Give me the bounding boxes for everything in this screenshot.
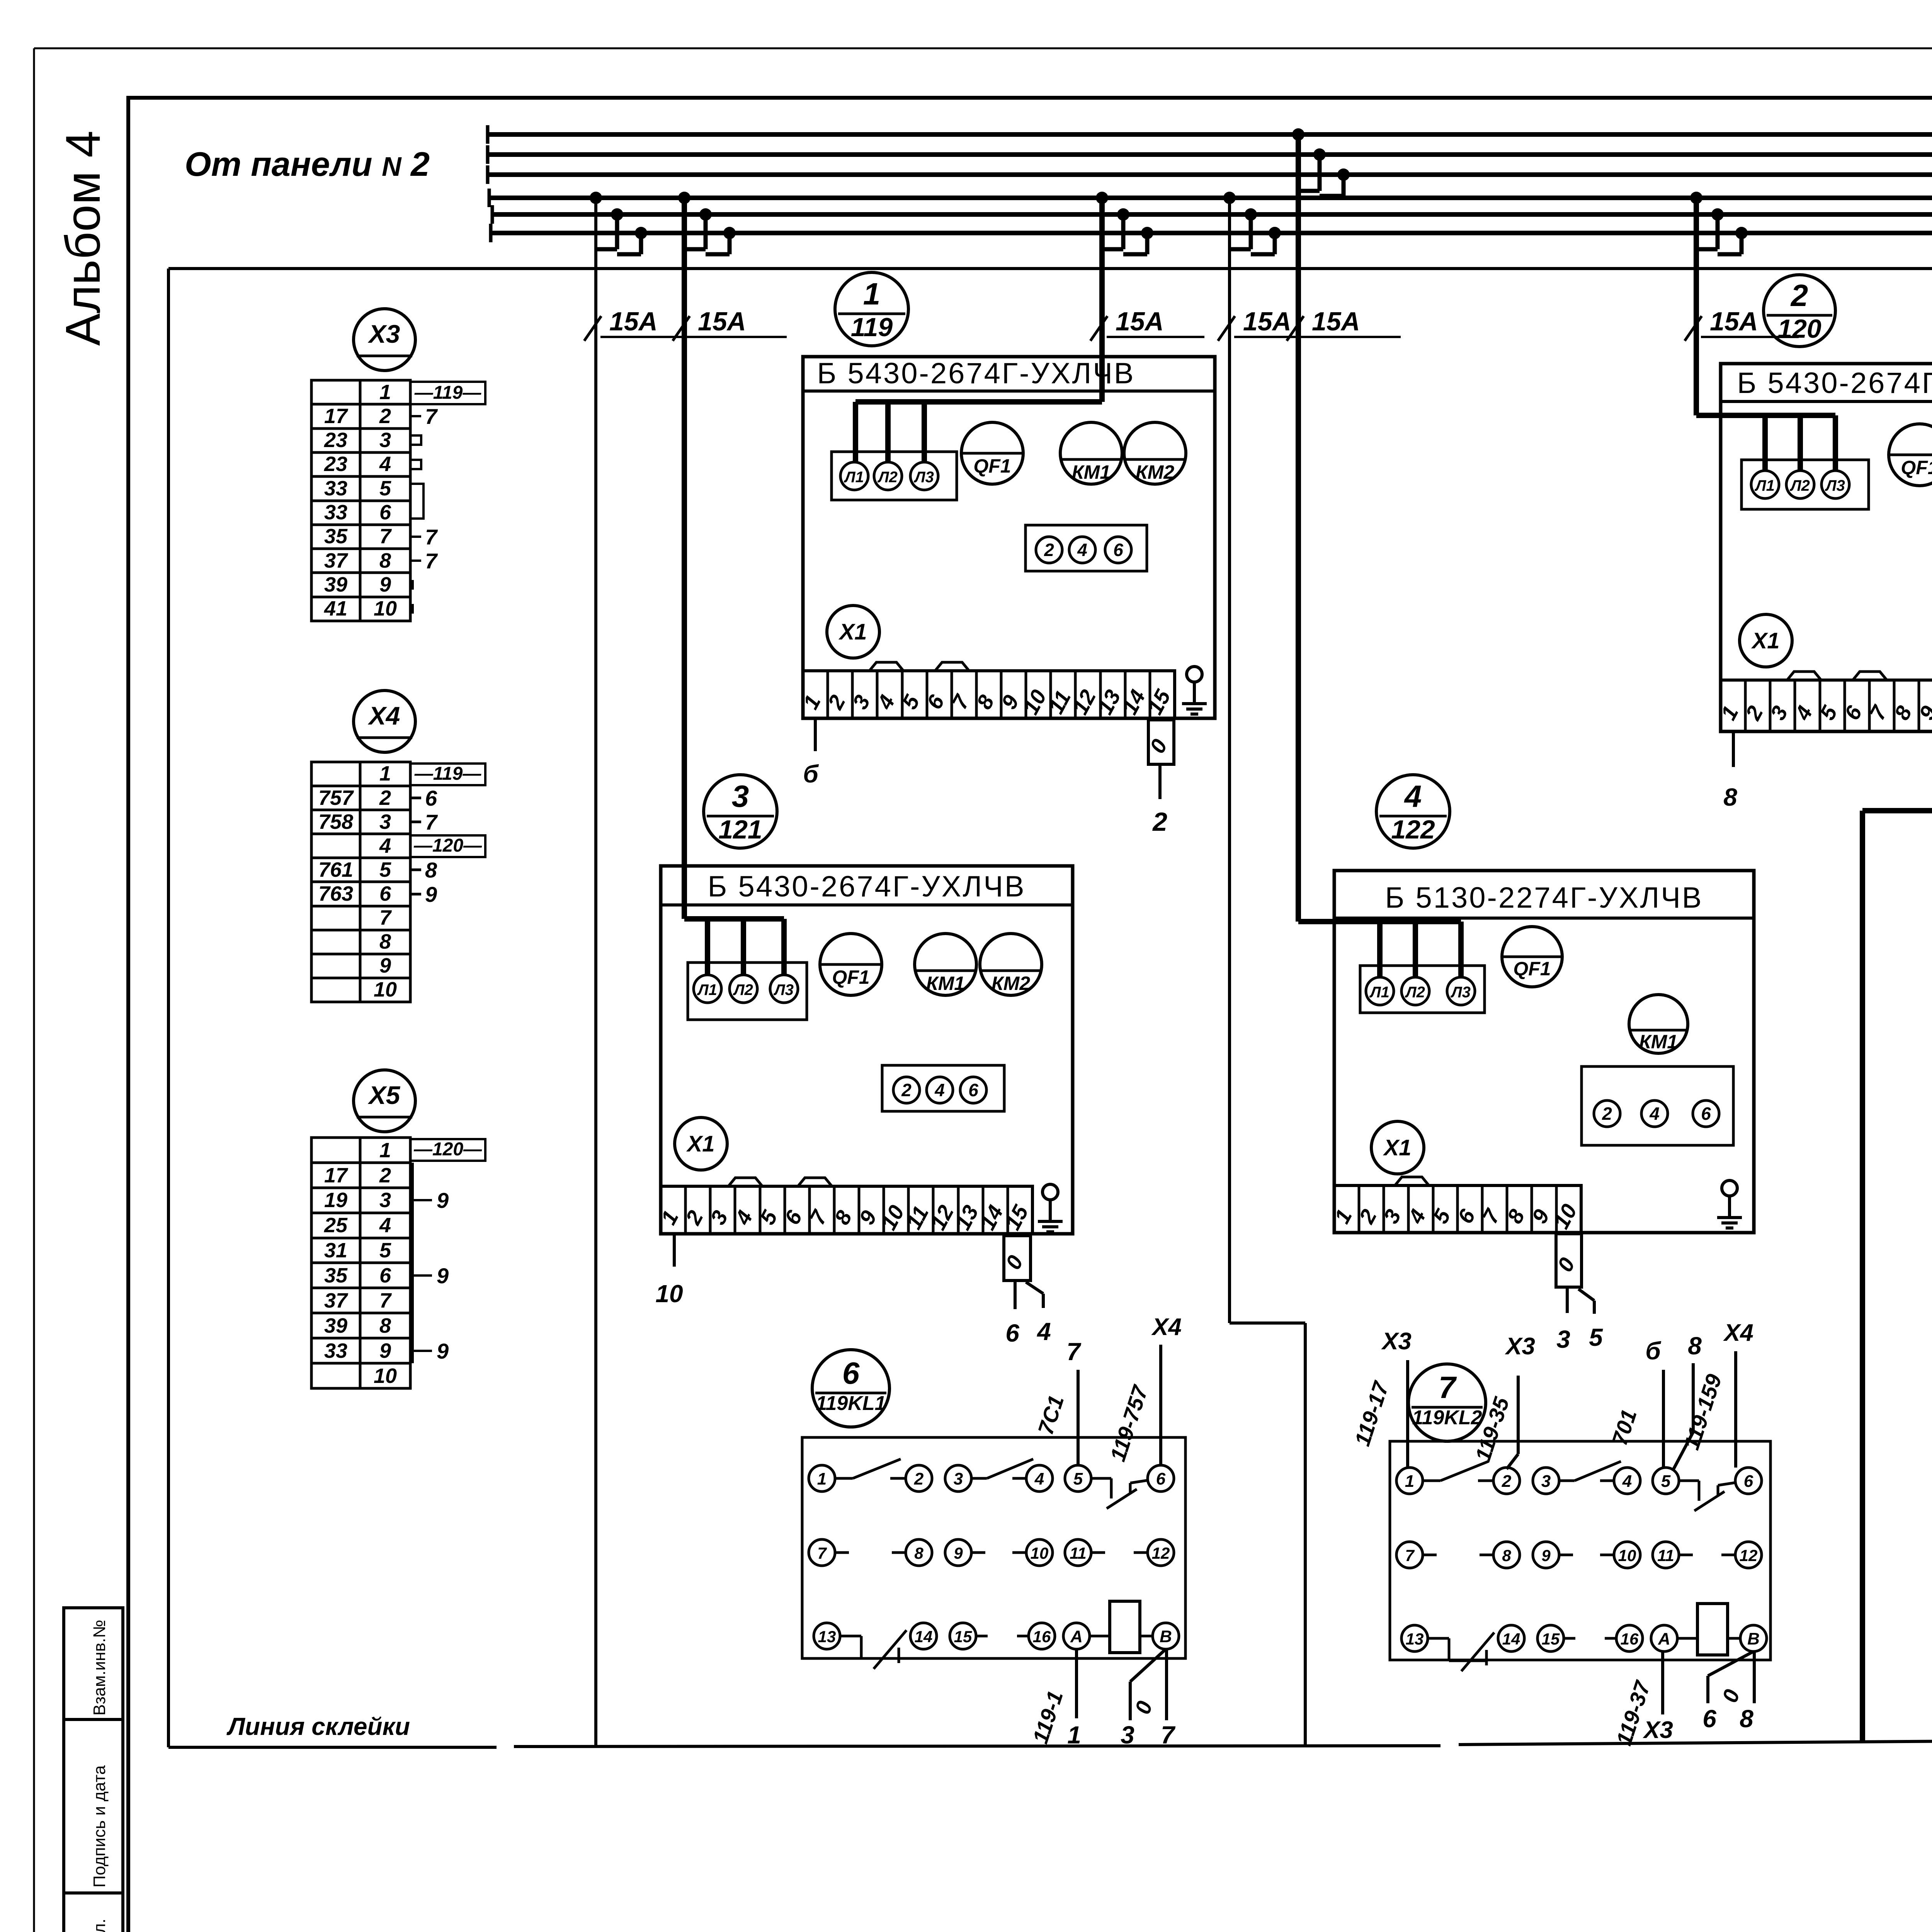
aux contact 6 of 119 [1105,537,1131,563]
relay 119KL1 pin 12 [1148,1539,1174,1566]
tap junction W6 main [1690,192,1702,204]
terminal Л3 of 122 [1447,977,1475,1005]
starter block 122 input terminals box [1360,966,1485,1013]
circuit balloon 3/121 [704,775,777,848]
circuit balloon 6/119KL1 [812,1350,889,1427]
aux contact 6 of 121 [960,1077,986,1103]
aux contact 2 of 119 [1036,537,1062,563]
svg-text:3: 3 [379,810,391,833]
relay 119KL2 stub pin 16 [1605,1637,1616,1640]
tap junction W3 main [1096,192,1108,204]
terminal Л2 of 120 [1786,471,1814,498]
svg-text:8: 8 [914,1544,923,1562]
relay 119KL1 stub pin 15 [976,1635,988,1638]
svg-text:2: 2 [914,1469,924,1488]
svg-text:10: 10 [374,978,397,1001]
ground symbol of 119 [1187,667,1202,682]
svg-text:10: 10 [374,597,397,620]
wire W6 hook phase3 [1735,227,1748,239]
svg-text:14: 14 [915,1628,933,1646]
svg-text:10: 10 [374,1364,397,1388]
circuit breaker QF1 of 121 [820,934,882,995]
wire into relay 119KL1 pin 6 from X4 [1159,1345,1162,1465]
circuit breaker QF1 of 119 [961,422,1023,484]
starter block 120 outline [1721,364,1932,731]
svg-text:Б 5430-2674Г-УХЛЧВ: Б 5430-2674Г-УХЛЧВ [1737,367,1932,400]
inner frame left [167,269,170,1747]
relay 119KL2 contact 5-6 [1679,1480,1699,1482]
svg-text:QF1: QF1 [1513,958,1551,980]
terminal strip of 121 [661,1186,1032,1234]
svg-text:15А: 15А [698,307,746,336]
bent wire into relay 119KL2 pin 5 [1692,1363,1695,1432]
svg-text:1: 1 [379,762,391,785]
terminal table X4 [311,762,410,1002]
wire into relay 119KL2 pin 5 [1662,1370,1665,1468]
aux contact 4 of 119 [1069,537,1095,563]
svg-text:б: б [1645,1337,1662,1365]
svg-text:Л3: Л3 [1450,984,1471,1001]
svg-text:6: 6 [1702,1705,1716,1733]
svg-text:QF1: QF1 [832,966,869,988]
svg-text:6: 6 [842,1356,860,1390]
relay 119KL2 pin 3 [1533,1468,1559,1494]
svg-text:7: 7 [425,549,438,573]
svg-text:15А: 15А [1116,307,1164,336]
svg-text:2: 2 [379,405,391,428]
svg-text:8: 8 [379,549,391,572]
svg-text:Линия склейки: Линия склейки [226,1713,410,1740]
relay 119KL1 pin 11 [1065,1539,1091,1566]
svg-text:4: 4 [379,452,391,476]
relay 119KL1 pin 9 [945,1539,971,1566]
svg-text:5: 5 [1589,1323,1603,1351]
wire into relay 119KL1 pin 5 [1077,1370,1080,1465]
wire into relay 119KL2 pin 6 from X4 [1734,1351,1737,1468]
relay 119KL2 pin 5 [1653,1468,1679,1494]
svg-text:8: 8 [425,858,437,882]
svg-text:Б 5430-2674Г-УХЛЧВ: Б 5430-2674Г-УХЛЧВ [817,357,1135,390]
svg-text:Л1: Л1 [697,981,717,998]
tap junction W2 main [678,192,690,204]
svg-text:2: 2 [379,786,391,810]
relay 119KL1 pin 16 [1029,1623,1055,1649]
relay 119KL2 pin B [1740,1625,1767,1651]
table X5 cable tag 120 [410,1139,485,1161]
svg-text:Л3: Л3 [1825,477,1845,494]
svg-text:—119—: —119— [414,764,482,784]
svg-text:6: 6 [1701,1104,1711,1124]
svg-text:3: 3 [1556,1325,1570,1353]
svg-text:Х3: Х3 [1643,1717,1673,1743]
table X5 wire tags 9 [413,1199,432,1201]
svg-text:1: 1 [379,381,391,404]
relay 119KL1 coil [1110,1601,1140,1653]
svg-text:9: 9 [954,1544,963,1562]
contactor КМ2 of 121 [980,934,1042,995]
svg-text:X1: X1 [686,1131,715,1156]
wire W3 hook phase3 [1141,227,1153,239]
jumper bump on strip of 120 [1853,672,1887,680]
svg-text:7: 7 [1066,1338,1082,1366]
svg-text:8: 8 [379,930,391,953]
aux contact 4 of 122 [1641,1100,1668,1127]
svg-text:2: 2 [1044,540,1054,560]
svg-text:Л2: Л2 [1789,477,1810,494]
svg-text:5: 5 [1661,1472,1671,1491]
sheet edge lines [34,48,1932,49]
relay 119KL2 pin 8 [1493,1542,1520,1568]
aux contact 4 of 121 [927,1077,953,1103]
relay 119KL2 coil leads [1677,1637,1697,1640]
svg-text:X3: X3 [367,320,400,348]
svg-text:В: В [1160,1627,1172,1646]
svg-text:6: 6 [1005,1319,1019,1347]
relay 119KL1 pin 10 [1026,1539,1053,1566]
svg-text:758: 758 [318,810,353,833]
bus line L5 [492,212,1932,217]
svg-text:2: 2 [1602,1104,1612,1124]
svg-text:757: 757 [318,786,354,810]
svg-text:763: 763 [318,882,353,905]
svg-text:6: 6 [1113,540,1123,560]
connector X1 of 120 [1740,614,1792,667]
svg-text:25: 25 [324,1214,348,1237]
terminal Л1 of 121 [694,975,721,1003]
terminal Л3 of 121 [770,975,798,1003]
svg-text:9: 9 [437,1339,449,1363]
relay block 119KL1 outline [802,1437,1185,1658]
svg-text:X4: X4 [1151,1314,1182,1340]
svg-text:—120—: —120— [413,835,482,856]
svg-text:Л1: Л1 [1369,984,1389,1001]
relay 119KL2 stub pin 15 [1564,1637,1575,1640]
svg-text:3: 3 [1541,1472,1551,1491]
relay 119KL2 coil [1697,1604,1728,1655]
contactor КМ2 of 119 [1124,422,1186,484]
fuse F3 15A [1090,316,1107,341]
relay 119KL2 pin 10 [1614,1542,1640,1568]
svg-text:X1: X1 [1751,628,1780,653]
svg-text:13: 13 [818,1628,836,1646]
wire W1 hook phase3 [635,227,647,239]
svg-text:3: 3 [379,429,391,452]
relay 119KL1 pin 15 [950,1623,976,1649]
connector X1 of 119 [827,605,879,658]
svg-text:7: 7 [425,404,438,429]
circuit balloon 7/119KL2 [1408,1364,1486,1441]
aux contact box of 122 [1582,1066,1733,1145]
aux contact 2 of 121 [893,1077,920,1103]
svg-text:X1: X1 [1383,1135,1412,1160]
svg-text:4: 4 [1404,779,1422,813]
relay 119KL1 contact 13-14 [840,1635,861,1638]
svg-text:9: 9 [379,573,391,596]
svg-text:X3: X3 [1505,1333,1535,1360]
relay 119KL1 contact 1-2 [835,1477,853,1480]
relay 119KL1 pin 6 [1148,1465,1174,1492]
starter block 122 outline [1334,871,1754,1233]
starter block 121 header separator [661,903,1073,906]
svg-text:—119—: —119— [414,383,482,403]
table X4 cable tag 119 [410,764,485,785]
svg-text:33: 33 [324,501,347,524]
jumper bump on strip of 121 [728,1178,762,1186]
starter block 119 header separator [803,389,1215,393]
svg-text:17: 17 [324,1164,349,1187]
svg-text:122: 122 [1391,815,1435,844]
svg-text:4: 4 [1077,540,1087,560]
svg-text:9: 9 [437,1188,449,1213]
ground symbol of 121 [1043,1184,1058,1200]
svg-text:Л3: Л3 [773,981,794,998]
left stamp boxes [64,1608,123,1719]
svg-text:23: 23 [324,452,347,476]
svg-text:2: 2 [901,1080,912,1100]
svg-text:120: 120 [1777,314,1821,344]
svg-text:6: 6 [379,1264,391,1287]
starter block 120 header separator [1721,400,1932,403]
svg-text:6: 6 [379,501,391,524]
bus line L2 [488,152,1932,157]
svg-text:6: 6 [1156,1469,1166,1488]
glue line horizontal bottom [168,1746,497,1749]
svg-text:33: 33 [324,477,347,500]
svg-text:4: 4 [1036,1318,1051,1345]
svg-text:QF1: QF1 [973,455,1011,477]
svg-text:б: б [803,760,819,788]
svg-text:2: 2 [379,1164,391,1187]
wire W2 phase stubs into block 121 [705,919,710,975]
svg-text:33: 33 [324,1339,347,1362]
svg-text:12: 12 [1152,1544,1170,1562]
circuit breaker QF1 of 122 [1502,927,1562,987]
svg-text:31: 31 [324,1239,347,1262]
relay 119KL2 pin 7 [1396,1542,1423,1568]
svg-text:6: 6 [1744,1472,1753,1491]
aux contact 6 of 122 [1693,1100,1719,1127]
terminal Л1 of 120 [1751,471,1779,498]
relay 119KL2 pin 2 [1493,1468,1520,1494]
wire W2 hook phase3 [723,227,736,239]
svg-text:Л1: Л1 [1754,477,1775,494]
svg-text:КМ2: КМ2 [1136,461,1174,483]
wires from terminal 0 of block 122 [1566,1287,1569,1313]
relay 119KL2 pin 6 [1735,1468,1762,1494]
svg-text:4: 4 [1649,1104,1660,1124]
relay 119KL2 pin 14 [1498,1625,1524,1651]
svg-text:1: 1 [379,1139,391,1162]
table X4 wire tags [410,797,421,799]
tap junction W4 main [1223,192,1236,204]
svg-text:7: 7 [379,906,392,929]
relay 119KL2 pin 1 [1396,1468,1423,1494]
wire W1 hook phase2 [611,208,623,221]
terminal Л2 of 122 [1401,977,1429,1005]
svg-text:19: 19 [324,1189,347,1212]
starter block 122 header separator [1334,917,1754,920]
svg-text:761: 761 [318,858,353,881]
relay 119KL2 contact 3-4 [1559,1480,1575,1482]
svg-text:А: А [1070,1627,1083,1646]
svg-text:16: 16 [1621,1630,1639,1648]
svg-text:119: 119 [851,313,893,342]
terminal table X5 [311,1138,410,1388]
aux contact box of 121 [882,1065,1004,1111]
svg-text:6: 6 [968,1080,978,1100]
terminal table X3 [311,380,410,621]
jumper bump on strip of 119 [869,662,903,671]
relay 119KL2 pin 11 [1653,1542,1679,1568]
relay 119KL1 pin 5 [1065,1465,1091,1492]
svg-text:4: 4 [379,1214,391,1237]
wires from relay 119KL1 pin B [1130,1649,1166,1682]
starter block 119 outline [803,357,1215,718]
svg-text:15: 15 [1542,1630,1560,1648]
jumper bump on strip of 119 [935,662,969,671]
svg-text:121: 121 [718,815,762,844]
aux contact box of 119 [1026,525,1147,571]
svg-text:1: 1 [817,1469,827,1488]
relay 119KL1 pin B [1153,1623,1179,1649]
table X3 cable tag 119 [410,382,485,404]
svg-text:Л1: Л1 [844,469,864,486]
svg-text:15: 15 [954,1628,972,1646]
svg-text:7: 7 [379,525,392,548]
relay 119KL1 stub pin 16 [1017,1635,1029,1638]
svg-text:7: 7 [425,525,438,549]
tap junction W1 main [590,192,602,204]
svg-text:10: 10 [1031,1544,1049,1562]
connector X1 of 122 [1371,1121,1424,1174]
contactor КМ1 of 122 [1629,995,1688,1053]
svg-text:39: 39 [324,1314,347,1337]
relay 119KL1 pin 13 [814,1623,840,1649]
connector symbol X5 [354,1070,415,1132]
relay 119KL1 pin 14 [910,1623,937,1649]
relay 119KL2 contact 13-14 [1428,1637,1449,1640]
bus line L3 [488,172,1932,177]
svg-text:7: 7 [1161,1721,1176,1749]
svg-text:15А: 15А [609,307,658,336]
svg-text:2: 2 [1502,1472,1512,1491]
svg-text:Инв.№подл.: Инв.№подл. [90,1918,109,1932]
svg-text:1: 1 [863,277,881,311]
svg-text:15А: 15А [1710,307,1758,336]
svg-text:3: 3 [1121,1721,1134,1749]
svg-text:10: 10 [1618,1546,1636,1565]
relay 119KL2 pin 12 [1735,1542,1762,1568]
connector symbol X4 [354,690,415,752]
svg-text:3: 3 [379,1189,391,1212]
svg-text:4: 4 [379,834,391,857]
svg-text:12: 12 [1740,1546,1758,1565]
neutral terminal 0 of 122 [1556,1234,1582,1287]
fuse F6 15A [1685,316,1702,341]
wire from relay 119KL2 pin A [1661,1651,1664,1714]
svg-text:6: 6 [425,786,437,810]
svg-text:8: 8 [1740,1705,1753,1733]
wires from relay 119KL2 pin B [1708,1651,1753,1676]
jumper bump on strip of 120 [1787,672,1821,680]
relay 119KL1 pin stubs row2 [835,1551,849,1554]
bus line L1 [488,132,1932,137]
connector symbol X3 [354,309,415,371]
svg-text:КМ1: КМ1 [926,973,965,994]
bus line L4 [489,196,1932,200]
wire W6 hook phase2 [1711,208,1724,221]
wire W5 phase stubs into block 122 [1377,922,1383,978]
contactor КМ1 of 121 [915,934,976,995]
relay 119KL1 pin 7 [809,1539,835,1566]
inner frame top [168,267,1932,270]
circuit balloon 2/120 [1764,275,1835,347]
svg-text:Л3: Л3 [913,469,934,486]
svg-text:В: В [1747,1629,1760,1648]
svg-text:39: 39 [324,573,347,596]
svg-text:15А: 15А [1312,307,1360,336]
svg-text:Б 5130-2274Г-УХЛЧВ: Б 5130-2274Г-УХЛЧВ [1385,881,1703,914]
relay 119KL2 pin A [1651,1625,1677,1651]
relay 119KL1 pin 8 [906,1539,932,1566]
svg-text:6: 6 [379,882,391,905]
wire into relay 119KL2 pin 2 from X3 [1517,1376,1520,1454]
svg-text:3: 3 [732,779,749,813]
wire from relay 119KL1 pin A [1075,1649,1078,1718]
jumper bump on strip of 122 [1395,1177,1429,1185]
svg-text:9: 9 [379,954,391,977]
wire from terminal 0 of block 119 [1158,764,1162,799]
svg-text:8: 8 [379,1314,391,1337]
fuse F4 15A [1218,316,1235,341]
svg-text:17: 17 [324,405,349,428]
svg-text:7: 7 [425,810,438,834]
svg-text:10: 10 [655,1280,683,1308]
aux contact 2 of 122 [1594,1100,1620,1127]
terminal Л3 of 119 [910,462,938,490]
terminal strip of 122 [1334,1185,1581,1233]
svg-text:5: 5 [379,477,391,500]
wire W5 hook phase3 [1337,168,1350,181]
fuse F1 15A [584,316,601,341]
relay 119KL2 pin 4 [1614,1468,1640,1494]
svg-text:7: 7 [379,1289,392,1312]
svg-text:Л2: Л2 [877,469,898,486]
fuse F2 15A [673,316,690,341]
svg-text:1: 1 [1067,1721,1081,1749]
svg-text:7: 7 [1405,1546,1415,1565]
relay 119KL2 pin 13 [1401,1625,1428,1651]
relay 119KL1 pin A [1063,1623,1090,1649]
wire from terminal 1 of block 119 [814,718,817,751]
relay 119KL1 contact 5-6 [1091,1477,1111,1480]
neutral terminal 0 of 119 [1148,720,1174,764]
wire W4 hook phase2 [1245,208,1257,221]
svg-text:37: 37 [324,1289,349,1312]
wire W2 hook phase2 [699,208,712,221]
circuit breaker QF1 of 120 [1889,424,1932,486]
svg-text:Л2: Л2 [733,981,753,998]
svg-text:9: 9 [379,1339,391,1362]
svg-text:4: 4 [1034,1469,1044,1488]
svg-text:119KL2: 119KL2 [1412,1406,1482,1429]
starter block 121 input terminals box [688,963,807,1020]
wire into relay 119KL2 pin 1 from X3 [1406,1360,1409,1468]
wire W3 hook phase2 [1117,208,1129,221]
svg-text:2: 2 [1152,807,1167,837]
relay 119KL2 pin 15 [1537,1625,1564,1651]
svg-text:2: 2 [1790,278,1808,313]
